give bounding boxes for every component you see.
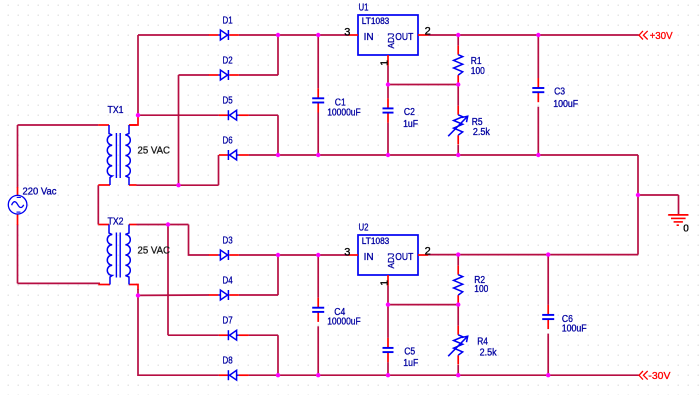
regulator U1 LT1083 <box>358 15 418 55</box>
svg-text:2.5k: 2.5k <box>473 127 491 138</box>
svg-text:OUT: OUT <box>395 32 413 43</box>
wire +30V output rail <box>428 34 639 36</box>
junction node U2 ADJ <box>386 302 390 306</box>
capacitor C2 <box>383 98 394 122</box>
junction node D7/D8 <box>276 373 280 377</box>
junction node R1/R5 <box>456 82 460 86</box>
junction node D3/D4 cathodes <box>276 253 280 257</box>
label C3 <box>553 86 578 110</box>
wire ADJ node to R5 <box>457 85 459 106</box>
diode D6 <box>219 150 249 160</box>
label D4 <box>223 276 234 287</box>
svg-text:1uF: 1uF <box>403 119 418 130</box>
svg-text:U1: U1 <box>359 3 369 14</box>
junction node C6 top <box>546 252 550 256</box>
resistor R5 <box>448 106 468 145</box>
capacitor C6 <box>542 305 554 329</box>
diode D1 <box>209 30 239 40</box>
wire ground rail right vertical <box>637 155 639 255</box>
wire D4 row right <box>239 294 278 296</box>
junction node R4 bottom <box>456 373 460 377</box>
svg-text:C3: C3 <box>554 86 565 97</box>
wire U2 ADJ node horizontal <box>388 304 458 306</box>
label D7 <box>223 316 234 327</box>
wire ground rail (top section) <box>249 154 638 156</box>
svg-text:D4: D4 <box>223 276 234 287</box>
junction node R5 bottom <box>456 153 460 157</box>
svg-text:D2: D2 <box>223 56 234 67</box>
svg-text:D1: D1 <box>223 16 234 27</box>
wire D7 row right <box>249 334 278 336</box>
svg-text:LT1083: LT1083 <box>362 16 390 26</box>
wire C2 top link <box>387 85 389 99</box>
svg-text:D5: D5 <box>223 96 234 107</box>
svg-text:C5: C5 <box>404 346 415 357</box>
junction node ground tap <box>636 193 640 197</box>
wire D1 row left <box>138 34 209 36</box>
wire D1 corner down to TX1 secondary top node <box>137 35 139 115</box>
svg-text:TX1: TX1 <box>108 105 124 116</box>
label D5 <box>223 96 234 107</box>
wire source top to TX1 primary <box>18 124 99 126</box>
wire U2 ADJ vertical <box>387 286 389 305</box>
junction node C3 bottom <box>536 153 540 157</box>
wire D2 row left <box>179 74 210 76</box>
wire C3 bottom link <box>537 107 539 155</box>
label 0 (ground net) <box>683 224 689 235</box>
label TX1 <box>108 105 124 116</box>
wire ADJ node to R4 <box>457 305 459 326</box>
wire R5 bottom link <box>457 145 459 155</box>
svg-text:2: 2 <box>425 245 431 257</box>
pin 3 (IN) of U1 <box>344 27 358 39</box>
label 25 VAC (TX2 secondary) <box>138 246 171 257</box>
transformer TX1 <box>98 125 136 185</box>
pin 1 (ADJ) of U1 <box>379 55 391 66</box>
wire U1 ADJ vertical <box>387 66 389 85</box>
pin 1 (ADJ) of U2 <box>379 275 391 286</box>
svg-text:25 VAC: 25 VAC <box>138 146 171 157</box>
wire TX1 secondary top node to D5 <box>138 114 219 116</box>
junction node C4 top <box>316 253 320 257</box>
wire ground stub vertical <box>678 195 680 214</box>
svg-text:OUT: OUT <box>395 252 413 263</box>
junction node R1 top <box>456 33 460 37</box>
svg-text:100uF: 100uF <box>553 99 578 110</box>
wire source bottom to TX2 primary <box>18 282 101 284</box>
svg-text:25 VAC: 25 VAC <box>138 246 171 257</box>
transformer TX2 <box>98 225 136 285</box>
svg-text:1: 1 <box>379 280 391 286</box>
wire TX1 secondary top jog <box>130 115 139 125</box>
wire TX2 secondary top node <box>137 224 189 226</box>
label U2 <box>359 223 369 234</box>
diode D7 <box>219 330 249 340</box>
svg-text:220 Vac: 220 Vac <box>23 186 57 197</box>
svg-text:IN: IN <box>364 252 374 263</box>
wire U1 ADJ node horizontal <box>388 84 458 86</box>
label U1 <box>359 3 369 14</box>
svg-text:ADJ: ADJ <box>386 33 396 49</box>
svg-text:100: 100 <box>474 284 488 295</box>
svg-text:2: 2 <box>425 25 431 37</box>
svg-text:IN: IN <box>364 32 374 43</box>
junction node C2 bottom <box>386 153 390 157</box>
diode D8 <box>219 370 249 380</box>
capacitor C5 <box>383 338 394 362</box>
junction node C5 bottom <box>386 373 390 377</box>
svg-text:-30V: -30V <box>648 370 670 382</box>
wire C4 top link <box>317 255 319 298</box>
capacitor C4 <box>312 298 324 322</box>
resistor R4 <box>448 326 468 365</box>
wire C5 bottom link <box>387 362 389 375</box>
label D6 <box>223 136 234 147</box>
wire D2 corner down to TX1 secondary bottom node <box>178 75 180 185</box>
capacitor C3 <box>532 78 544 102</box>
capacitor C1 <box>312 88 324 112</box>
wire D6 corner up <box>218 155 220 185</box>
svg-text:D8: D8 <box>223 356 234 367</box>
pin 2 (OUT) of U2 <box>418 245 431 257</box>
wire TX2 secondary bottom jog <box>136 285 138 291</box>
pin 2 (OUT) of U1 <box>418 25 431 37</box>
svg-text:1uF: 1uF <box>403 358 418 369</box>
wire C4 bottom link <box>317 326 319 375</box>
wire TX2 secondary bottom link <box>137 289 139 295</box>
svg-text:10000uF: 10000uF <box>327 317 361 328</box>
label 25 VAC (TX1 secondary) <box>138 146 171 157</box>
diode D4 <box>209 290 239 300</box>
label R2 <box>474 275 488 295</box>
wire D2 row right <box>239 74 278 76</box>
svg-text:100uF: 100uF <box>562 323 587 334</box>
label 220 Vac <box>23 186 57 197</box>
resistor R1 <box>454 46 463 85</box>
label C5 <box>403 346 418 369</box>
svg-text:0: 0 <box>683 224 689 235</box>
resistor R2 <box>454 266 463 305</box>
svg-text:R4: R4 <box>477 337 488 348</box>
svg-text:D3: D3 <box>223 236 234 247</box>
wire D7 row left <box>168 334 219 336</box>
wire R2 top link <box>457 255 459 266</box>
wire C6 bottom link <box>547 334 549 376</box>
junction node D5/D6 to ground rail <box>276 153 280 157</box>
label C1 <box>327 97 361 118</box>
wire D1 row right to U1 IN <box>239 34 350 36</box>
wire C1 top link <box>317 35 319 88</box>
svg-text:3: 3 <box>344 247 350 259</box>
wire D5 to ground rail vertical <box>277 115 279 155</box>
wire C1 bottom link <box>317 113 319 156</box>
wire ground stub horizontal <box>638 194 679 196</box>
svg-text:1: 1 <box>379 60 391 66</box>
wire TX2 secondary bottom node to D4 <box>138 294 209 296</box>
wire -30V rail (bottom) <box>249 374 639 376</box>
label D1 <box>223 16 234 27</box>
label TX2 <box>108 217 124 228</box>
wire D2 to D1 vertical <box>277 35 279 75</box>
junction node C1 top <box>316 33 320 37</box>
power port +30V <box>639 30 673 42</box>
wire C2 bottom link <box>387 123 389 155</box>
wire TX1 primary bottom to TX2 primary top <box>97 185 99 224</box>
diode D3 <box>209 250 239 260</box>
svg-text:D7: D7 <box>223 316 234 327</box>
label R1 <box>471 56 485 77</box>
svg-text:LT1083: LT1083 <box>362 236 390 246</box>
wire U2 OUT rail <box>428 254 638 256</box>
label D2 <box>223 56 234 67</box>
wire C6 top link <box>547 255 549 305</box>
diode D2 <box>209 70 239 80</box>
wire R4 bottom link <box>457 365 459 375</box>
regulator U2 LT1083 <box>358 235 418 275</box>
label C6 <box>562 314 587 334</box>
wire TX2 secondary top node to D7 vertical <box>167 225 169 336</box>
wire D3 row right to U2 IN <box>239 254 350 256</box>
junction node C6 bottom <box>546 373 550 377</box>
junction node TX1 secondary bottom <box>176 183 180 187</box>
junction node C3 top <box>536 33 540 37</box>
svg-text:C2: C2 <box>404 107 415 118</box>
label C2 <box>403 107 418 130</box>
wire source top vertical <box>17 125 19 188</box>
junction node TX2 secondary top <box>166 222 170 226</box>
label D3 <box>223 236 234 247</box>
wire TX2 bottom node down to D8 <box>138 295 219 375</box>
wire D7 to D8 vertical <box>277 335 279 375</box>
junction node R2 top <box>456 252 460 256</box>
wire D5 row right <box>249 114 278 116</box>
diode D5 <box>219 110 249 120</box>
junction node C4 bottom <box>316 373 320 377</box>
wire TX2 top corner down to D3 <box>189 225 210 256</box>
wire TX1 secondary bottom row <box>137 184 219 186</box>
label D8 <box>223 356 234 367</box>
svg-text:+30V: +30V <box>650 30 673 42</box>
label C4 <box>327 307 361 328</box>
junction node C1 bottom <box>316 153 320 157</box>
wire C3 top link <box>537 35 539 78</box>
label R4 <box>477 337 497 359</box>
pin 3 (IN) of U2 <box>344 247 358 259</box>
wire source bottom vertical <box>17 225 19 284</box>
svg-text:U2: U2 <box>359 223 369 234</box>
junction node U1 ADJ <box>386 82 390 86</box>
ground symbol <box>668 215 688 225</box>
wire R1 top link <box>457 35 459 46</box>
power port -30V <box>639 370 670 382</box>
svg-text:100: 100 <box>471 66 485 77</box>
junction node D1/D2 cathodes <box>276 33 280 37</box>
label R5 <box>472 117 491 138</box>
svg-text:TX2: TX2 <box>108 217 124 228</box>
junction node TX2 secondary bottom <box>136 293 140 297</box>
svg-text:ADJ: ADJ <box>386 253 396 269</box>
junction node TX1 secondary top <box>136 113 140 117</box>
wire C5 top link <box>387 305 389 338</box>
AC source V1 220 Vac <box>8 187 27 225</box>
svg-text:D6: D6 <box>223 136 234 147</box>
svg-text:3: 3 <box>344 27 350 39</box>
junction node R2/R4 <box>456 302 460 306</box>
svg-text:10000uF: 10000uF <box>327 107 361 118</box>
wire D3 to D4 vertical <box>277 255 279 295</box>
svg-text:2.5k: 2.5k <box>480 347 498 358</box>
